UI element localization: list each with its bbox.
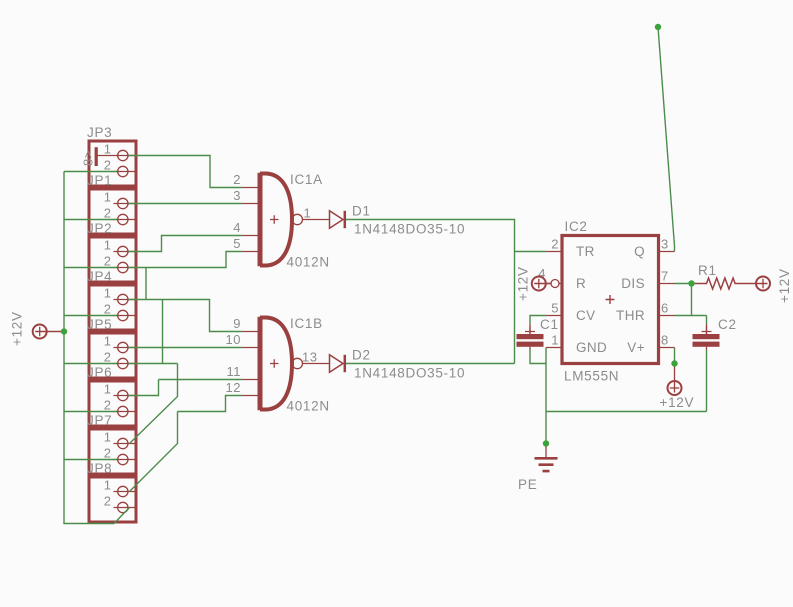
svg-text:2: 2: [104, 350, 112, 365]
connector JP6: [87, 365, 136, 426]
svg-text:2: 2: [551, 237, 559, 252]
capacitor C1: [517, 317, 559, 350]
svg-text:IC2: IC2: [565, 219, 588, 234]
svg-text:10: 10: [226, 332, 241, 347]
svg-text:13: 13: [302, 350, 317, 365]
svg-text:+12V: +12V: [10, 311, 25, 346]
svg-text:4012N: 4012N: [287, 399, 330, 414]
svg-text:D2: D2: [352, 348, 371, 363]
svg-text:2: 2: [233, 172, 241, 187]
svg-text:1N4148DO35-10: 1N4148DO35-10: [354, 366, 465, 381]
svg-text:JP4: JP4: [87, 269, 112, 284]
wire rail to JP1.2: [64, 219, 117, 221]
wire vertical to diagonal JP8.1: [130, 412, 178, 492]
svg-text:3: 3: [233, 188, 241, 203]
wire IC2 GND down to PE: [545, 348, 547, 444]
wire IC2 THR to C2 top: [675, 316, 707, 325]
+12V supply symbol right of R1: [756, 268, 792, 303]
junction dot antenna top node: [655, 24, 661, 30]
svg-text:1: 1: [104, 478, 112, 493]
svg-text:3: 3: [661, 237, 669, 252]
wire vertical to diagonal JP7.1: [130, 364, 178, 444]
wire tie JP2.2 row to JP4.1 row: [145, 268, 147, 300]
wire tie JP4.1 row down to JP5.2 row: [162, 300, 164, 364]
svg-text:JP1: JP1: [87, 173, 112, 188]
diode D2 1N4148DO35-10: [330, 348, 466, 381]
op-amp gate IC1A (4012N): [233, 172, 330, 270]
connector JP3: [81, 125, 137, 186]
svg-text:2: 2: [104, 494, 112, 509]
wire rail to JP3.2: [64, 171, 117, 173]
svg-text:GND: GND: [576, 340, 607, 355]
connector JP8: [87, 461, 136, 522]
diode D1 1N4148DO35-10: [330, 204, 466, 237]
svg-text:5: 5: [233, 236, 241, 251]
resistor R1: [692, 263, 758, 289]
wire GND net to C2 bottom: [546, 411, 707, 413]
svg-text:4: 4: [233, 220, 241, 235]
connector JP4: [87, 269, 136, 330]
wire rail to JP2.2: [64, 267, 117, 269]
wire +12V rail vertical: [64, 172, 130, 524]
svg-text:1: 1: [104, 142, 112, 157]
svg-text:2: 2: [104, 254, 112, 269]
svg-text:8>: 8>: [81, 150, 96, 166]
wire JP2.1 to IC1A pin4: [129, 236, 243, 252]
svg-text:1: 1: [104, 238, 112, 253]
svg-text:IC1B: IC1B: [290, 316, 323, 331]
+12V supply symbol (left rail): [10, 311, 65, 346]
wire JP6.1 riser: [129, 380, 159, 396]
wire C2 bottom lead: [706, 350, 708, 412]
svg-text:1: 1: [551, 333, 559, 348]
wire R1 node down to THR wire: [691, 284, 693, 316]
wire rail to JP6.2: [64, 411, 117, 413]
wire JP5.1 to IC1B pin10: [129, 347, 243, 349]
svg-text:JP3: JP3: [87, 125, 112, 140]
svg-text:2: 2: [104, 398, 112, 413]
svg-text:1: 1: [104, 334, 112, 349]
wire JP3.1 to IC1A pin2: [129, 156, 243, 188]
wire D1 cathode to node: [346, 220, 515, 364]
svg-text:V+: V+: [627, 340, 645, 355]
svg-text:JP2: JP2: [87, 221, 112, 236]
wire antenna from node to IC2 Q: [658, 27, 675, 252]
wire IC2 CV to C1: [530, 316, 546, 325]
wire JP5.2 row rightward: [129, 363, 178, 365]
svg-text:R: R: [576, 276, 586, 291]
svg-text:2: 2: [104, 302, 112, 317]
wire IC2 V+ down to +12V: [674, 348, 676, 364]
svg-text:C2: C2: [718, 317, 737, 332]
capacitor C2: [693, 317, 737, 350]
svg-text:12: 12: [226, 380, 241, 395]
wire to IC1B pin12: [178, 396, 243, 412]
svg-text:1: 1: [304, 206, 312, 221]
wire rail to JP5.2: [64, 363, 117, 365]
junction dot V+ node: [671, 360, 677, 366]
svg-text:IC1A: IC1A: [290, 172, 323, 187]
+12V supply symbol at IC2 V+: [660, 364, 695, 411]
junction dot R1/DIS node: [688, 280, 694, 286]
svg-text:7: 7: [661, 269, 669, 284]
svg-text:1: 1: [104, 430, 112, 445]
svg-text:JP6: JP6: [87, 365, 112, 380]
wire JP1.1 to IC1A pin3: [129, 203, 243, 205]
svg-text:JP8: JP8: [87, 461, 112, 476]
wire IC1B pin11 row: [159, 379, 243, 381]
wire JP2.2 to IC1A pin5: [129, 252, 243, 268]
wire D2 cathode to node: [346, 363, 515, 365]
svg-text:CV: CV: [576, 308, 596, 323]
+12V supply symbol at IC2 R pin: [516, 266, 551, 301]
wire IC2 DIS to R1 node: [675, 283, 692, 285]
connector JP2: [87, 221, 136, 282]
svg-text:1: 1: [104, 286, 112, 301]
svg-text:R1: R1: [698, 263, 717, 278]
svg-text:2: 2: [104, 158, 112, 173]
svg-text:5: 5: [551, 301, 559, 316]
junction dot rail +12V: [61, 328, 67, 334]
svg-text:1: 1: [104, 190, 112, 205]
svg-text:+12V: +12V: [777, 268, 792, 303]
svg-text:D1: D1: [352, 204, 371, 219]
svg-text:+12V: +12V: [516, 266, 531, 301]
svg-text:4012N: 4012N: [287, 255, 330, 270]
svg-text:+12V: +12V: [660, 395, 695, 410]
connector JP1: [87, 173, 136, 234]
svg-text:C1: C1: [540, 317, 559, 332]
connector JP7: [87, 413, 136, 474]
svg-text:8: 8: [661, 333, 669, 348]
IC U2: IC2 LM555N: [538, 219, 674, 384]
svg-text:1N4148DO35-10: 1N4148DO35-10: [354, 222, 465, 237]
wire C1 bottom to GND net: [530, 350, 546, 364]
connector JP5: [87, 317, 136, 378]
svg-text:JP7: JP7: [87, 413, 112, 428]
svg-text:9: 9: [233, 316, 241, 331]
svg-text:TR: TR: [576, 244, 595, 259]
svg-text:2: 2: [104, 446, 112, 461]
svg-text:JP5: JP5: [87, 317, 112, 332]
ground symbol PE: [518, 444, 558, 493]
wire rail to JP4.2: [64, 315, 117, 317]
svg-text:THR: THR: [616, 308, 645, 323]
op-amp gate IC1B (4012N): [226, 316, 330, 414]
svg-text:DIS: DIS: [621, 276, 645, 291]
wire node to IC2 TR: [515, 251, 547, 253]
svg-text:1: 1: [104, 382, 112, 397]
svg-text:PE: PE: [518, 477, 537, 492]
svg-text:2: 2: [104, 206, 112, 221]
svg-text:11: 11: [227, 364, 242, 379]
svg-text:6: 6: [661, 301, 669, 316]
svg-text:LM555N: LM555N: [564, 369, 619, 384]
wire rail to JP7.2: [64, 459, 117, 461]
junction dot PE node: [543, 440, 549, 446]
wire JP4.1 to IC1B pin9: [129, 300, 243, 332]
svg-text:Q: Q: [634, 244, 645, 259]
